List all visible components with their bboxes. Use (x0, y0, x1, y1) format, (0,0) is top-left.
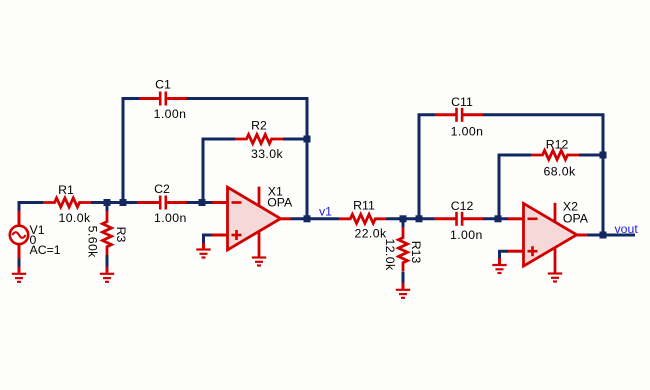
svg-text:10.0k: 10.0k (58, 211, 91, 225)
ground at X1 negative supply pin (252, 258, 266, 266)
ground at X2 negative supply pin (548, 274, 562, 282)
junction at C11 riser (416, 215, 423, 222)
resistor R11 (339, 214, 386, 223)
junction at X2 minus node (495, 215, 502, 222)
svg-text:1.00n: 1.00n (154, 211, 187, 225)
wire C1 right to output vertical down to v1 (187, 99, 307, 219)
wire R3 bottom stub to ground (106, 255, 109, 267)
junction at R2 output (304, 136, 311, 143)
ground at X2 plus input (492, 258, 506, 273)
voltage source V1 (10, 211, 28, 259)
op-amp X1 (212, 187, 291, 257)
resistor R3 (103, 211, 112, 255)
ground below R13 (396, 283, 410, 298)
svg-text:1.00n: 1.00n (451, 125, 484, 139)
svg-text:5.60k: 5.60k (86, 226, 100, 259)
wire C11 right to output vertical down to vout (483, 115, 603, 235)
junction node v1 (304, 215, 311, 222)
svg-text:12.0k: 12.0k (383, 238, 397, 271)
capacitor C12 (435, 212, 484, 226)
svg-text:R2: R2 (251, 119, 267, 133)
junction at X1 minus node (199, 199, 206, 206)
capacitor C1 (139, 92, 187, 106)
wire X1 output to R11 (node v1) (291, 217, 340, 220)
ground at X1 plus input (196, 243, 210, 258)
wire R12 left riser from X2 minus node (499, 155, 531, 217)
op-amp X2 (508, 203, 587, 273)
junction at R13 tap (400, 215, 407, 222)
wire R2 right to output vertical (283, 138, 307, 141)
svg-text:R3: R3 (114, 227, 128, 243)
svg-text:v1: v1 (319, 205, 332, 219)
wire R13 bottom stub to ground (402, 272, 405, 284)
svg-text:33.0k: 33.0k (251, 147, 284, 161)
svg-text:22.0k: 22.0k (354, 227, 387, 241)
svg-text:68.0k: 68.0k (543, 165, 576, 179)
capacitor C11 (435, 108, 483, 122)
wire C11 left riser (419, 115, 435, 220)
junction node vout (600, 232, 607, 239)
svg-text:R1: R1 (58, 183, 74, 197)
wire R1 to C2 main line (91, 201, 137, 204)
ground below R3 (100, 267, 114, 282)
wire V1 top corner to R1 (19, 203, 43, 212)
junction at R12 output (600, 152, 607, 159)
svg-text:OPA: OPA (563, 212, 589, 226)
resistor R12 (531, 151, 579, 160)
svg-text:1.00n: 1.00n (450, 228, 483, 242)
svg-text:OPA: OPA (267, 196, 293, 210)
svg-text:1.00n: 1.00n (154, 107, 187, 121)
wire R11 to C12 main line (386, 217, 435, 220)
wire V1 bottom stub to ground (18, 259, 21, 268)
wire C1 left riser (123, 99, 139, 205)
svg-text:vout: vout (615, 222, 639, 236)
resistor R1 (43, 198, 91, 207)
svg-text:R11: R11 (353, 199, 375, 213)
wire X1 plus input to ground (204, 235, 213, 244)
svg-text:R12: R12 (546, 138, 569, 152)
capacitor C2 (137, 196, 187, 210)
resistor R2 (235, 135, 283, 144)
wire R3 top stub (106, 204, 109, 211)
wire R13 top stub (402, 220, 405, 227)
wire C2 to X1 minus input (187, 201, 212, 204)
svg-text:C1: C1 (155, 78, 171, 92)
junction at C1 riser (120, 199, 127, 206)
svg-text:C2: C2 (154, 182, 170, 196)
wire C12 to X2 minus input (483, 217, 508, 220)
svg-text:R13: R13 (409, 241, 423, 264)
svg-text:AC=1: AC=1 (30, 243, 61, 257)
wire X2 plus input to ground (500, 251, 509, 258)
wire R2 left riser from minus node (203, 139, 235, 201)
wire X2 output to vout (587, 234, 635, 237)
ground below V1 (12, 267, 26, 282)
svg-text:C12: C12 (451, 199, 474, 213)
svg-text:C11: C11 (451, 95, 473, 109)
junction at R3 tap (104, 199, 111, 206)
resistor R13 (399, 227, 408, 271)
wire R12 right to output vertical (579, 154, 603, 157)
